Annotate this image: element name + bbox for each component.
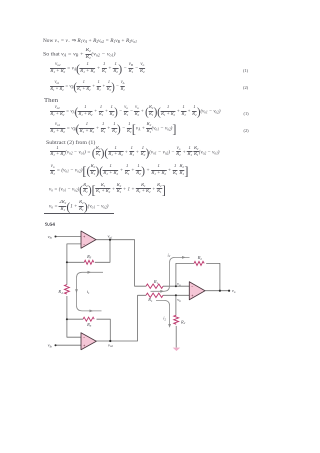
svg-text:R1: R1: [153, 279, 159, 285]
svg-text:vib: vib: [48, 343, 53, 349]
svg-text:vo1: vo1: [108, 234, 113, 240]
svg-text:R3: R3: [86, 254, 92, 260]
svg-text:via: via: [48, 234, 53, 240]
svg-text:i2: i2: [167, 252, 170, 258]
svg-text:+: +: [83, 235, 85, 239]
svg-text:R2: R2: [197, 255, 203, 261]
svg-text:vo: vo: [232, 288, 236, 294]
svg-text:R2: R2: [180, 319, 186, 325]
svg-text:−: −: [83, 336, 85, 340]
svg-text:i1: i1: [87, 289, 90, 295]
svg-text:R1: R1: [147, 297, 153, 303]
svg-text:+: +: [83, 344, 85, 348]
svg-text:−: −: [191, 285, 193, 289]
svg-text:va: va: [177, 281, 181, 287]
svg-text:R4: R4: [57, 289, 63, 295]
svg-text:R3: R3: [86, 322, 92, 328]
svg-text:vb: vb: [177, 297, 181, 303]
svg-text:vo2: vo2: [108, 342, 113, 348]
svg-text:+: +: [191, 294, 193, 298]
svg-text:−: −: [83, 243, 85, 247]
svg-text:i2: i2: [163, 316, 166, 322]
